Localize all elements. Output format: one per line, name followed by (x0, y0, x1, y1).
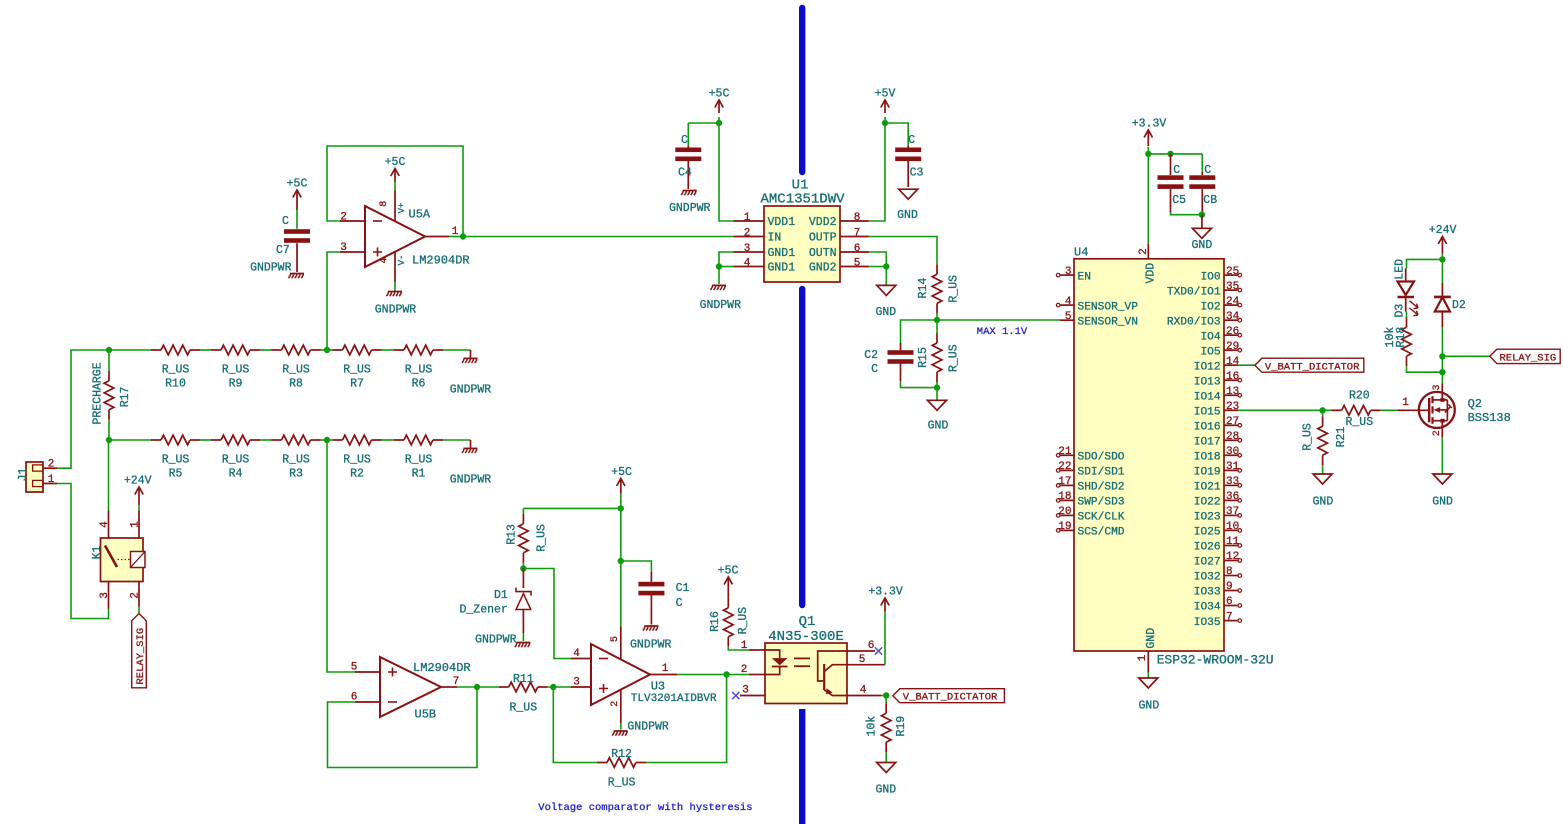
Q1 pin 6 no-connect (847, 650, 875, 652)
svg-text:R_US: R_US (1345, 416, 1373, 429)
U5A feedback wire (327, 146, 463, 237)
ground GNDPWR under C4 (683, 190, 697, 192)
svg-text:8: 8 (379, 201, 390, 207)
wire J1 pin1 down to K1 pin3 (57, 484, 109, 619)
svg-text:3: 3 (1065, 266, 1072, 278)
node row2 left (106, 437, 112, 443)
svg-text:2: 2 (130, 592, 142, 599)
svg-text:4: 4 (860, 685, 867, 697)
wire row1 segments (109, 349, 151, 351)
K1 pin 2 (138, 582, 140, 607)
node drain (1441, 356, 1443, 372)
svg-text:GND: GND (928, 420, 949, 433)
svg-text:5: 5 (351, 662, 358, 674)
svg-text:IO25: IO25 (1194, 527, 1221, 539)
wire R16 to Q1 pin1 (728, 647, 749, 650)
wire row2 segments (109, 439, 151, 441)
svg-text:5: 5 (1065, 311, 1072, 323)
svg-text:36: 36 (1226, 491, 1239, 503)
resistor R19 (885, 696, 887, 704)
svg-text:R_US: R_US (947, 275, 960, 303)
resistor R12 (607, 758, 636, 768)
U4 pin 8 IO32 (1224, 575, 1238, 577)
svg-text:C: C (282, 215, 289, 228)
svg-text:R11: R11 (513, 673, 534, 686)
U4 pin 11 IO26 (1224, 545, 1238, 547)
svg-text:R10: R10 (165, 378, 186, 391)
svg-text:31: 31 (1226, 461, 1240, 473)
svg-text:GND: GND (1145, 628, 1158, 649)
svg-text:GNDPWR: GNDPWR (669, 202, 711, 215)
svg-text:R2: R2 (350, 468, 364, 481)
U1 pin 4 GND1 (733, 266, 764, 268)
wire IO15 to R20 (1238, 409, 1334, 411)
svg-text:VDD2: VDD2 (809, 216, 837, 229)
Q1 coupling lines (794, 657, 810, 659)
U4 pin 21 SDO/SDO (1060, 454, 1074, 456)
svg-text:29: 29 (1226, 341, 1239, 353)
svg-text:J1: J1 (17, 468, 30, 482)
svg-text:6: 6 (868, 640, 875, 652)
U4 pin 14 IO12 (1224, 364, 1238, 366)
svg-text:LM2904DR: LM2904DR (413, 661, 471, 675)
svg-text:+24V: +24V (124, 475, 152, 488)
U3 pin 4 (571, 658, 591, 660)
capacitor CB (1201, 154, 1203, 172)
svg-text:3: 3 (573, 677, 580, 689)
svg-text:TLV3201AIDBVR: TLV3201AIDBVR (631, 693, 717, 705)
power +5V at C3 (881, 100, 889, 108)
svg-text:R9: R9 (229, 378, 243, 391)
ground GND under R15 (928, 400, 947, 410)
global label V_BATT_DICTATOR at Q1 (893, 689, 1005, 703)
svg-text:K1: K1 (91, 546, 104, 560)
global label V_BATT_DICTATOR at U4 (1255, 358, 1364, 372)
U4 pin 34 RXD0/IO3 (1224, 319, 1238, 321)
ground GND under U4 (1139, 678, 1158, 688)
K1 pin 3 (108, 582, 110, 609)
svg-text:R_US: R_US (947, 344, 960, 372)
svg-text:IO34: IO34 (1194, 602, 1221, 614)
svg-text:V-: V- (397, 255, 407, 266)
node row2 mid (324, 437, 330, 443)
transistor Q2 BSS138 (1419, 392, 1455, 428)
svg-text:R_US: R_US (343, 364, 371, 377)
power +24V at D2 (1438, 237, 1446, 245)
svg-text:6: 6 (854, 243, 861, 255)
U1 pin 1 VDD1 (733, 220, 764, 222)
svg-text:+5C: +5C (287, 178, 308, 191)
svg-text:R_US: R_US (222, 364, 250, 377)
node U3 V+ branch (618, 558, 624, 564)
node +24V (1439, 256, 1445, 262)
svg-text:IO13: IO13 (1194, 376, 1221, 388)
U5A pin 1 output (425, 236, 449, 238)
svg-text:R19: R19 (895, 716, 908, 737)
microcontroller U4 ESP32 (1074, 259, 1224, 651)
svg-text:R_US: R_US (536, 524, 549, 552)
Q1 pin 3 no-connect (740, 695, 765, 697)
svg-text:3: 3 (742, 685, 749, 697)
svg-text:R12: R12 (611, 748, 632, 761)
Q2 gate pin 1 (1397, 409, 1428, 411)
svg-text:IO22: IO22 (1194, 497, 1221, 509)
svg-text:C: C (908, 134, 915, 147)
node +5C U3 (618, 505, 624, 511)
svg-text:LM2904DR: LM2904DR (412, 254, 470, 268)
global label RELAY_SIG right (1490, 349, 1560, 363)
svg-text:SCK/CLK: SCK/CLK (1078, 512, 1125, 524)
svg-text:23: 23 (1226, 401, 1239, 413)
svg-text:1: 1 (1402, 397, 1409, 409)
svg-text:IO16: IO16 (1194, 422, 1221, 434)
svg-text:R16: R16 (709, 611, 722, 632)
wire U5A output to U1 IN (463, 236, 733, 238)
svg-text:SDO/SDO: SDO/SDO (1078, 452, 1125, 464)
node +3.3V main (1145, 151, 1151, 157)
U5B pin 7 output (441, 686, 457, 688)
ground GNDPWR under U3 (614, 730, 628, 732)
svg-text:R6: R6 (412, 378, 426, 391)
wire +3.3V to caps (1148, 153, 1202, 155)
U4 pin 33 IO21 (1224, 484, 1238, 486)
K1 pin 1 (138, 511, 140, 539)
U5A pin 2 (340, 220, 365, 222)
U5B pin 6 (355, 701, 380, 703)
svg-text:CB: CB (1203, 194, 1217, 207)
U4 pin 28 IO17 (1224, 439, 1238, 441)
svg-text:RELAY_SIG: RELAY_SIG (135, 628, 147, 685)
capacitor C7 (296, 210, 298, 229)
svg-text:GNDPWR: GNDPWR (450, 384, 492, 397)
svg-text:TXD0/IO1: TXD0/IO1 (1167, 286, 1221, 298)
comparator U3 (591, 644, 650, 705)
U1 pin 2 IN (733, 236, 764, 238)
svg-text:SWP/SD3: SWP/SD3 (1078, 497, 1125, 509)
svg-text:1: 1 (744, 212, 751, 224)
svg-text:1: 1 (48, 474, 55, 486)
resistor R6 (404, 345, 433, 355)
resistor R5 (161, 435, 190, 445)
U5A V+ pin 8 (394, 191, 396, 222)
U4 pin 18 SWP/SD3 (1060, 499, 1074, 501)
svg-text:2: 2 (1432, 430, 1443, 436)
resistor R15 (936, 320, 938, 333)
U1 pin 5 GND2 (840, 266, 869, 268)
svg-text:MAX 1.1V: MAX 1.1V (977, 326, 1028, 338)
resistor R17 (108, 350, 110, 371)
node U1 GND2 (883, 263, 889, 269)
Q1 pin 5 (847, 664, 885, 666)
svg-text:10k: 10k (865, 716, 878, 737)
svg-text:BSS138: BSS138 (1468, 411, 1511, 425)
svg-text:GNDPWR: GNDPWR (475, 634, 517, 647)
svg-text:3: 3 (744, 243, 751, 255)
svg-text:R1: R1 (412, 468, 426, 481)
resistor R16 (727, 592, 729, 598)
svg-text:R_US: R_US (222, 454, 250, 467)
svg-text:C7: C7 (276, 244, 290, 257)
svg-text:IO23: IO23 (1194, 512, 1221, 524)
node U5A output (449, 236, 463, 238)
power +5C at R16 (724, 577, 732, 585)
svg-text:Voltage comparator with hyster: Voltage comparator with hysteresis (538, 802, 752, 814)
ground GNDPWR row2 (470, 440, 472, 448)
wire U1 GND1 pins (719, 252, 733, 267)
svg-text:GND: GND (1432, 496, 1453, 509)
ground GNDPWR under D1 (516, 642, 530, 644)
Q1 pin 2 (749, 674, 765, 676)
svg-text:1: 1 (662, 663, 669, 675)
svg-text:GNDPWR: GNDPWR (250, 262, 292, 275)
svg-text:2: 2 (741, 664, 748, 676)
svg-text:IO12: IO12 (1194, 361, 1221, 373)
svg-text:PRECHARGE: PRECHARGE (92, 362, 105, 424)
svg-text:4: 4 (99, 521, 111, 528)
svg-text:R_US: R_US (282, 454, 310, 467)
node R15 bottom (934, 384, 940, 390)
svg-text:V+: V+ (397, 203, 407, 214)
svg-text:IO32: IO32 (1194, 572, 1221, 584)
svg-text:16: 16 (1226, 371, 1239, 383)
K1 pin 4 (108, 511, 110, 539)
svg-text:37: 37 (1226, 506, 1239, 518)
svg-text:R7: R7 (350, 378, 364, 391)
svg-text:7: 7 (1226, 611, 1233, 623)
capacitor C4 (688, 122, 719, 124)
svg-text:8: 8 (854, 212, 861, 224)
svg-text:+5C: +5C (385, 156, 406, 169)
feedback wire to R12 (646, 675, 727, 763)
svg-text:4: 4 (744, 257, 751, 269)
U4 GND pin 1 (1147, 651, 1149, 672)
U4 pin 37 IO23 (1224, 514, 1238, 516)
power +5C at U5A (391, 169, 399, 177)
svg-text:C1: C1 (676, 582, 690, 595)
svg-text:R3: R3 (289, 468, 303, 481)
svg-text:Q2: Q2 (1468, 397, 1482, 411)
node R13 bottom (520, 565, 526, 571)
svg-text:GND: GND (1192, 239, 1213, 252)
resistor R11 (509, 682, 538, 692)
svg-text:SENSOR_VN: SENSOR_VN (1078, 316, 1138, 328)
wire +5C to U1 VDD1 (719, 123, 733, 221)
ground GND under R19 (877, 763, 896, 773)
svg-text:C: C (1204, 164, 1211, 177)
svg-text:3: 3 (1432, 384, 1443, 390)
node +5V C3 (882, 120, 888, 126)
svg-text:+3.3V: +3.3V (1132, 118, 1167, 131)
svg-text:GND1: GND1 (768, 247, 796, 260)
svg-text:R20: R20 (1349, 390, 1370, 403)
Q1 internal LED (765, 650, 780, 658)
svg-text:GNDPWR: GNDPWR (627, 720, 669, 733)
diode D2 (1441, 259, 1443, 283)
svg-text:7: 7 (854, 227, 861, 239)
svg-text:6: 6 (1226, 596, 1233, 608)
svg-text:28: 28 (1226, 431, 1239, 443)
resistor R20 (1342, 406, 1371, 416)
U3 pin 1 output (650, 674, 677, 676)
power +24V at K1 (138, 505, 140, 511)
U4 pin 26 IO4 (1224, 334, 1238, 336)
svg-text:1: 1 (741, 640, 748, 652)
svg-text:12: 12 (1226, 551, 1239, 563)
wire R12 to U3 pin3 node (553, 687, 597, 763)
isolation barrier bar segment 3 (799, 709, 805, 824)
U4 pin 4 SENSOR_VP (1060, 304, 1074, 306)
svg-text:D3: D3 (1394, 304, 1407, 318)
isolation barrier bar segment 1 (799, 8, 805, 172)
svg-text:R_US: R_US (405, 454, 433, 467)
power +5C above U3 (617, 479, 625, 487)
svg-text:+5C: +5C (709, 88, 730, 101)
svg-text:+5V: +5V (875, 88, 896, 101)
svg-text:GND: GND (1139, 699, 1160, 712)
ground GNDPWR under C1 (644, 625, 658, 627)
U4 pin 12 IO27 (1224, 560, 1238, 562)
svg-text:GND1: GND1 (768, 262, 796, 275)
svg-text:IO21: IO21 (1194, 482, 1221, 494)
U4 pin 20 SCK/CLK (1060, 514, 1074, 516)
capacitor C1 (621, 561, 652, 572)
wire U1 OUTN GND2 (869, 252, 886, 267)
svg-text:VDD1: VDD1 (768, 216, 796, 229)
svg-text:IO4: IO4 (1200, 331, 1220, 343)
U4 pin 5 SENSOR_VN (1060, 319, 1074, 321)
wire U3 output to Q1 (677, 674, 749, 676)
svg-text:Q1: Q1 (799, 614, 816, 630)
wire K1 pin4 to row2 (108, 440, 110, 511)
power +5C at C7 (293, 190, 301, 198)
wire to RELAY_SIG label (1442, 355, 1489, 357)
svg-text:33: 33 (1226, 476, 1239, 488)
U4 pin 31 IO19 (1224, 469, 1238, 471)
wire row2 to U5B pin5 (327, 440, 355, 672)
svg-text:SDI/SD1: SDI/SD1 (1078, 467, 1125, 479)
svg-text:30: 30 (1226, 446, 1239, 458)
power +5C at C4 (715, 100, 723, 108)
svg-text:C4: C4 (678, 167, 692, 180)
ground GND under caps (1192, 228, 1211, 238)
svg-text:U3: U3 (651, 680, 665, 694)
svg-text:SHD/SD2: SHD/SD2 (1078, 482, 1125, 494)
U4 pin 24 IO2 (1224, 304, 1238, 306)
resistor R4 (221, 435, 250, 445)
optocoupler Q1 (765, 643, 847, 704)
svg-text:5: 5 (859, 654, 866, 666)
ground GNDPWR row1 (470, 350, 472, 358)
svg-text:GND: GND (875, 306, 896, 319)
svg-text:GNDPWR: GNDPWR (700, 299, 742, 312)
resistor R3 (282, 435, 311, 445)
U5B pin 5 (355, 671, 380, 673)
U1 pin 7 OUTP (840, 236, 869, 238)
ground GNDPWR under C7 (290, 273, 304, 275)
svg-text:24: 24 (1226, 296, 1240, 308)
capacitor C5 (1170, 154, 1172, 172)
svg-text:R8: R8 (289, 378, 303, 391)
wire R20 to Q2 gate (1381, 409, 1398, 411)
node Q1 pin4 (883, 692, 889, 698)
power +3.3V at U4 (1144, 130, 1152, 138)
wire +5C node down (620, 508, 622, 561)
svg-text:U5B: U5B (415, 708, 437, 722)
U4 pin 9 IO33 (1224, 590, 1238, 592)
svg-text:D_Zener: D_Zener (459, 604, 507, 617)
svg-text:D1: D1 (494, 589, 508, 602)
U4 pin 7 IO35 (1224, 620, 1238, 622)
svg-text:C2: C2 (864, 349, 878, 362)
svg-text:OUTP: OUTP (809, 232, 837, 245)
wire +5V to U1 VDD2 (869, 123, 885, 221)
global label RELAY_SIG at K1 (138, 607, 140, 614)
svg-text:2: 2 (610, 701, 621, 707)
U5A V- pin 4 (394, 252, 396, 282)
svg-text:27: 27 (1226, 416, 1239, 428)
svg-text:10: 10 (1226, 521, 1239, 533)
svg-text:R14: R14 (917, 278, 930, 299)
resistor R10 (161, 345, 190, 355)
resistor R7 (343, 345, 372, 355)
resistor R1 (404, 435, 433, 445)
svg-text:D2: D2 (1452, 299, 1466, 312)
svg-text:3: 3 (99, 592, 111, 599)
wire divider to SENSOR_VN (937, 319, 1060, 321)
svg-text:1: 1 (1137, 654, 1149, 661)
Q1 pin 4 (847, 695, 881, 697)
resistor R2 (343, 435, 372, 445)
svg-text:U5A: U5A (409, 208, 431, 222)
svg-text:RXD0/IO3: RXD0/IO3 (1167, 316, 1221, 328)
svg-text:GND: GND (897, 209, 918, 222)
svg-text:GNDPWR: GNDPWR (630, 639, 672, 652)
svg-text:+3.3V: +3.3V (868, 586, 903, 599)
ground GND under U1 (877, 285, 896, 295)
svg-text:C: C (871, 363, 878, 376)
U3 pin 5 V+ (620, 561, 622, 627)
wire caps bottoms (1171, 212, 1202, 215)
svg-text:3: 3 (340, 242, 347, 254)
svg-text:9: 9 (1226, 581, 1233, 593)
svg-text:2: 2 (48, 459, 55, 471)
isolation amplifier U1 (764, 206, 840, 282)
svg-text:R17: R17 (119, 387, 132, 408)
node +5C C4 (716, 120, 722, 126)
svg-text:GNDPWR: GNDPWR (450, 474, 492, 487)
svg-text:C: C (676, 597, 683, 610)
svg-text:+5C: +5C (718, 565, 739, 578)
svg-text:R_US: R_US (343, 454, 371, 467)
svg-text:IO18: IO18 (1194, 452, 1221, 464)
svg-text:R_US: R_US (282, 364, 310, 377)
node after R11 (548, 686, 571, 688)
U5A pin 3 (340, 251, 365, 253)
svg-text:R21: R21 (1335, 427, 1348, 448)
U1 pin 3 GND1 (733, 251, 764, 253)
node C5 top (1167, 151, 1173, 157)
Q1 pin 1 (749, 649, 765, 651)
svg-text:R_US: R_US (162, 454, 190, 467)
svg-text:R_US: R_US (509, 702, 537, 715)
svg-text:R13: R13 (506, 524, 519, 545)
wire R13 top to +5C node (523, 507, 620, 509)
isolation barrier bar segment 2 (799, 289, 805, 605)
op-amp U5A (365, 206, 425, 267)
power +3.3V at Q1 (884, 612, 886, 665)
svg-text:GND2: GND2 (809, 262, 837, 275)
U4 VDD pin 2 (1147, 244, 1149, 259)
